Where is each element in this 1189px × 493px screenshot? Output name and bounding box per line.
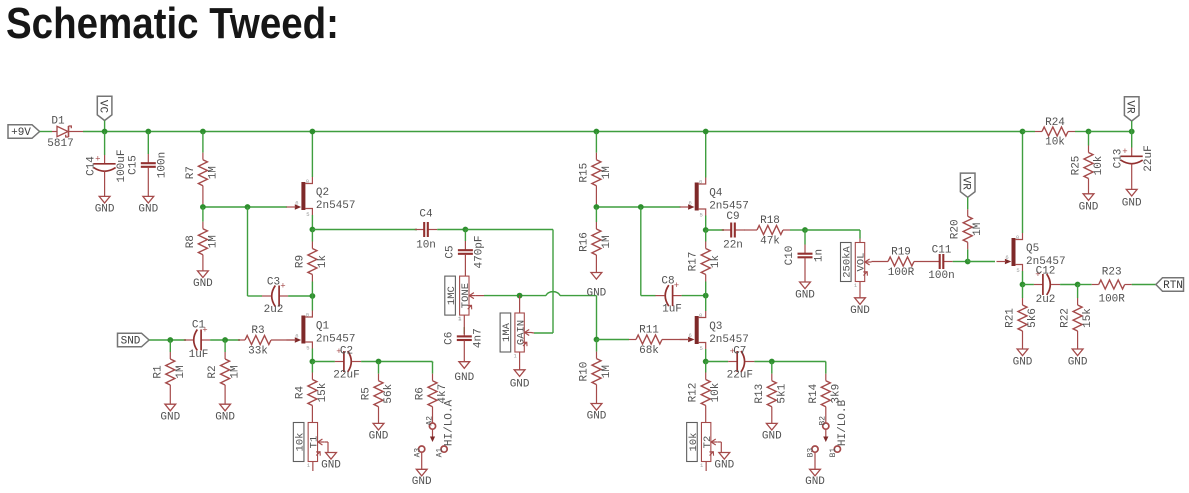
junction: [769, 359, 775, 365]
resistor R12: [688, 362, 723, 423]
wire T2 pin1 stub: [705, 462, 707, 472]
svg-text:0: 0: [1016, 234, 1019, 241]
junction: [167, 337, 173, 343]
svg-text:GND: GND: [587, 411, 607, 423]
wire to Q5 gate: [968, 261, 995, 263]
svg-text:R3: R3: [251, 325, 264, 337]
svg-text:GND: GND: [369, 431, 389, 443]
pad A1: [436, 446, 448, 457]
resistor R6: [415, 362, 450, 424]
junction: [517, 293, 523, 299]
wire GAIN top pin: [519, 296, 521, 313]
capacitor C14: [85, 132, 128, 216]
svg-text:R8: R8: [185, 235, 197, 248]
junction: [310, 293, 316, 299]
junction: [703, 293, 709, 299]
svg-text:100n: 100n: [157, 152, 169, 178]
svg-text:22uF: 22uF: [333, 370, 359, 382]
capacitor C10: [784, 230, 825, 302]
svg-text:GND: GND: [95, 204, 115, 216]
resistor R18: [744, 215, 805, 248]
wire VC stem: [104, 121, 106, 132]
ground: [412, 469, 432, 488]
node HI/LO.A label: [444, 400, 456, 447]
capacitor C7: [706, 346, 826, 382]
resistor R19: [872, 247, 921, 280]
wire Q1 drain: [311, 296, 313, 311]
svg-text:22uF: 22uF: [727, 370, 753, 382]
svg-text:C12: C12: [1036, 266, 1056, 278]
wire C8 drop: [641, 207, 656, 296]
junction: [222, 337, 228, 343]
svg-text:5817: 5817: [47, 138, 73, 150]
resistor R25: [1071, 132, 1106, 214]
pad B2: [819, 416, 829, 429]
capacitor C12: [1023, 266, 1078, 307]
svg-text:Q3: Q3: [709, 321, 722, 333]
junction: [310, 227, 316, 233]
svg-text:R22: R22: [1060, 308, 1072, 328]
svg-text:GND: GND: [1122, 198, 1142, 210]
svg-text:R2: R2: [207, 365, 219, 378]
resistor R21: [1005, 285, 1040, 369]
resistor R10: [579, 340, 614, 423]
svg-text:0: 0: [306, 178, 309, 185]
potentiometer TONE: [445, 276, 476, 323]
svg-text:1M: 1M: [972, 223, 984, 236]
resistor R1: [152, 340, 187, 423]
svg-text:15k: 15k: [317, 382, 329, 402]
svg-text:R20: R20: [950, 219, 962, 239]
transistor Q5: [997, 233, 1066, 274]
svg-text:C4: C4: [419, 209, 433, 221]
wire gate row 2: [596, 206, 680, 208]
svg-text:5k6: 5k6: [1027, 308, 1039, 328]
svg-text:22uF: 22uF: [1143, 145, 1155, 171]
svg-text:Schematic Tweed:: Schematic Tweed:: [6, 0, 339, 48]
svg-text:B2: B2: [819, 416, 828, 426]
svg-text:2n5457: 2n5457: [316, 200, 356, 212]
junction: [1086, 129, 1092, 135]
svg-text:VC: VC: [96, 100, 108, 114]
svg-text:1M: 1M: [230, 365, 242, 378]
svg-text:10k: 10k: [710, 382, 722, 402]
resistor R4: [294, 362, 329, 423]
svg-text:B3: B3: [807, 448, 816, 458]
svg-text:6: 6: [1005, 254, 1008, 261]
svg-text:GND: GND: [850, 305, 870, 317]
svg-text:Q1: Q1: [316, 321, 330, 333]
capacitor C4: [415, 209, 466, 252]
wire C4 row: [312, 229, 417, 231]
svg-text:R25: R25: [1071, 156, 1083, 176]
wire R6 drop: [432, 362, 434, 364]
pad A2: [425, 416, 435, 429]
svg-text:HI/LO.A: HI/LO.A: [444, 400, 456, 447]
wire Q2 source: [311, 215, 313, 230]
wire gate row 1: [203, 206, 287, 208]
capacitor C9: [722, 211, 744, 252]
svg-text:HI/LO.B: HI/LO.B: [837, 400, 849, 447]
svg-text:10k: 10k: [1093, 155, 1105, 175]
wire R14 drop: [825, 362, 827, 364]
node RTN flag: [1156, 278, 1184, 293]
transistor Q2: [286, 177, 355, 218]
svg-text:R16: R16: [578, 232, 590, 252]
svg-text:R15: R15: [578, 163, 590, 183]
ground: [850, 298, 870, 317]
junction: [703, 227, 709, 233]
capacitor C15: [127, 132, 168, 216]
resistor R13: [754, 362, 789, 443]
svg-text:A3: A3: [413, 448, 422, 458]
wire Q5 drain: [1022, 132, 1024, 234]
junction: [594, 129, 600, 135]
junction: [310, 359, 316, 365]
svg-text:R10: R10: [579, 362, 591, 382]
svg-text:Q4: Q4: [709, 188, 723, 200]
resistor R8: [185, 207, 220, 290]
svg-text:GND: GND: [714, 460, 734, 472]
wire SND row: [149, 339, 186, 341]
svg-text:GND: GND: [1013, 357, 1033, 369]
svg-text:4n7: 4n7: [473, 328, 485, 348]
svg-text:1: 1: [307, 462, 311, 469]
svg-text:A2: A2: [425, 416, 434, 426]
svg-text:5: 5: [1016, 267, 1019, 274]
wire 9V rail left: [83, 131, 1022, 133]
wire VOL bottom pin: [859, 282, 861, 298]
node VC flag: [96, 96, 112, 120]
svg-text:R13: R13: [754, 384, 766, 404]
junction: [463, 227, 469, 233]
svg-text:1: 1: [458, 315, 462, 322]
svg-text:5k1: 5k1: [776, 383, 788, 403]
svg-text:56k: 56k: [383, 383, 395, 403]
potentiometer VOL: [841, 243, 872, 290]
svg-text:GND: GND: [762, 431, 782, 443]
svg-text:15k: 15k: [1082, 308, 1094, 328]
svg-text:Q5: Q5: [1026, 243, 1039, 255]
junction: [594, 337, 600, 343]
wire TONE bottom pin: [458, 315, 464, 334]
wire VR2 stem: [1131, 121, 1133, 132]
svg-text:R1: R1: [152, 365, 164, 379]
resistor R20: [950, 209, 985, 262]
wire GAIN wiper: [531, 332, 534, 335]
svg-text:R6: R6: [415, 387, 427, 400]
svg-text:GND: GND: [795, 290, 815, 302]
wire Q1 source: [311, 349, 313, 362]
svg-text:1: 1: [513, 353, 517, 360]
svg-text:R7: R7: [185, 166, 197, 179]
resistor R3: [238, 325, 295, 358]
svg-text:C10: C10: [784, 246, 796, 266]
svg-text:1MC: 1MC: [446, 286, 458, 305]
svg-text:GND: GND: [193, 278, 213, 290]
svg-text:C1: C1: [192, 320, 206, 332]
svg-text:C15: C15: [127, 155, 139, 175]
junction: [1020, 282, 1026, 288]
svg-text:C13: C13: [1113, 149, 1125, 169]
svg-text:A1: A1: [436, 448, 445, 458]
transistor Q3: [680, 311, 749, 352]
wire Q4 drain: [705, 132, 707, 178]
capacitor C6: [443, 327, 484, 384]
svg-text:GND: GND: [138, 204, 158, 216]
svg-text:C7: C7: [733, 346, 746, 358]
svg-text:C11: C11: [932, 245, 952, 257]
svg-text:2n5457: 2n5457: [709, 334, 749, 346]
resistor R5: [361, 362, 396, 443]
svg-text:1M: 1M: [175, 365, 187, 378]
svg-text:+: +: [280, 282, 285, 292]
resistor R11: [597, 325, 689, 358]
resistor R9: [294, 230, 329, 297]
wire GAIN bottom pin: [519, 352, 521, 370]
capacitor C1: [184, 320, 240, 362]
svg-text:1M: 1M: [601, 166, 613, 179]
junction: [102, 129, 108, 135]
wire B3 to gnd: [814, 452, 816, 469]
junction: [703, 359, 709, 365]
svg-text:6: 6: [295, 333, 298, 340]
svg-text:100uF: 100uF: [116, 149, 128, 182]
svg-text:R5: R5: [361, 387, 373, 400]
potentiometer T1: [293, 423, 324, 470]
transistor Q1: [286, 311, 355, 352]
junction: [200, 204, 206, 210]
capacitor C13: [1113, 132, 1156, 210]
resistor R7: [185, 132, 220, 208]
resistor R24: [1022, 117, 1089, 149]
svg-text:5: 5: [306, 345, 309, 352]
node +9V flag: [8, 125, 40, 140]
svg-text:GND: GND: [454, 372, 474, 384]
ground: [510, 370, 530, 391]
pad A3: [413, 446, 425, 457]
svg-text:R19: R19: [891, 247, 911, 259]
svg-text:C5: C5: [444, 245, 456, 258]
jumper arrow A: [430, 429, 435, 442]
wire Q3 source: [705, 349, 707, 362]
svg-text:B1: B1: [829, 448, 838, 458]
svg-text:1M: 1M: [601, 365, 613, 378]
svg-text:GND: GND: [510, 379, 530, 391]
svg-text:5: 5: [700, 345, 703, 352]
wire VOL top pin: [859, 239, 861, 244]
svg-text:1k: 1k: [317, 255, 329, 269]
wire rail to VR: [1089, 131, 1132, 133]
svg-text:68k: 68k: [639, 345, 659, 357]
junction: [638, 204, 644, 210]
diode D1: [47, 116, 83, 151]
junction: [703, 129, 709, 135]
svg-text:100R: 100R: [888, 267, 915, 279]
wire T1 pin1 stub: [312, 462, 314, 472]
svg-text:6: 6: [689, 332, 692, 339]
svg-text:1k: 1k: [710, 255, 722, 269]
svg-text:6: 6: [295, 200, 298, 207]
junction: [310, 129, 316, 135]
transistor Q4: [680, 178, 749, 219]
resistor R14: [808, 362, 843, 424]
svg-text:22n: 22n: [723, 240, 743, 252]
svg-text:1uF: 1uF: [662, 304, 682, 316]
svg-text:100n: 100n: [928, 270, 954, 282]
ground: [714, 453, 734, 472]
wire Q5 source: [1022, 271, 1024, 285]
svg-text:2n5457: 2n5457: [316, 334, 356, 346]
junction: [376, 359, 382, 365]
svg-text:2u2: 2u2: [264, 304, 284, 316]
resistor R16: [578, 207, 613, 300]
svg-text:10k: 10k: [294, 433, 306, 452]
wire C3 drop: [248, 207, 263, 296]
junction: [245, 204, 251, 210]
svg-text:1M: 1M: [207, 235, 219, 248]
svg-text:10k: 10k: [1045, 137, 1065, 149]
pad B1: [829, 446, 841, 457]
svg-text:1M: 1M: [207, 166, 219, 179]
svg-text:RTN: RTN: [1163, 280, 1183, 292]
svg-text:R17: R17: [688, 252, 700, 272]
svg-text:C9: C9: [726, 211, 739, 223]
junction: [1020, 129, 1026, 135]
junction: [1129, 129, 1135, 135]
svg-text:1MA: 1MA: [501, 322, 513, 342]
svg-text:250kA: 250kA: [842, 246, 854, 278]
svg-text:C8: C8: [661, 276, 674, 288]
node HI/LO.B label: [837, 400, 849, 447]
wire Q2 drain: [311, 132, 313, 178]
svg-text:R23: R23: [1102, 267, 1122, 279]
svg-text:100R: 100R: [1098, 294, 1125, 306]
wire TONE wiper row: [476, 292, 597, 340]
svg-text:1uF: 1uF: [189, 349, 209, 361]
node SND flag: [118, 333, 150, 348]
svg-text:1M: 1M: [601, 235, 613, 248]
resistor R2: [207, 340, 242, 423]
svg-text:C2: C2: [340, 346, 353, 358]
wire T1 wiper to gnd: [325, 442, 329, 452]
title: [6, 0, 339, 48]
ground: [321, 453, 341, 472]
junction: [145, 129, 151, 135]
svg-text:GND: GND: [805, 476, 825, 488]
svg-text:GND: GND: [412, 476, 432, 488]
svg-text:VR: VR: [960, 177, 972, 191]
svg-text:GND: GND: [160, 411, 180, 423]
svg-text:R14: R14: [808, 383, 820, 403]
wire C9 row: [706, 229, 724, 231]
wire +9V to D1: [40, 131, 52, 133]
svg-text:C14: C14: [85, 156, 97, 176]
svg-text:R18: R18: [760, 215, 780, 227]
svg-text:10n: 10n: [416, 240, 436, 252]
svg-text:R12: R12: [688, 383, 700, 403]
svg-text:SND: SND: [121, 336, 141, 348]
resistor R15: [578, 132, 613, 208]
svg-text:GND: GND: [586, 288, 606, 300]
capacitor C8: [655, 276, 705, 316]
wire C4 row right: [465, 230, 553, 334]
svg-text:0: 0: [699, 179, 702, 186]
svg-text:6: 6: [689, 200, 692, 207]
svg-text:Q2: Q2: [316, 187, 329, 199]
svg-text:2u2: 2u2: [1036, 294, 1056, 306]
svg-text:GND: GND: [1068, 357, 1088, 369]
svg-text:C6: C6: [443, 332, 455, 345]
resistor R22: [1060, 285, 1095, 369]
junction: [200, 129, 206, 135]
svg-text:0: 0: [306, 312, 309, 319]
capacitor C11: [920, 245, 968, 283]
svg-text:R11: R11: [639, 325, 659, 337]
capacitor C3: [262, 277, 313, 317]
pad B3: [807, 446, 819, 457]
svg-text:0: 0: [699, 312, 702, 319]
svg-text:1: 1: [854, 282, 858, 289]
wire T2 wiper to gnd: [718, 442, 722, 452]
svg-text:D1: D1: [51, 116, 65, 128]
svg-text:GND: GND: [215, 411, 235, 423]
svg-text:R4: R4: [294, 386, 306, 400]
wire VR stem: [967, 197, 969, 209]
wire to VOL top: [805, 230, 860, 239]
svg-text:5: 5: [700, 212, 703, 219]
junction: [965, 259, 971, 265]
svg-text:GND: GND: [1079, 202, 1099, 214]
svg-text:1n: 1n: [813, 249, 825, 262]
svg-text:R21: R21: [1005, 308, 1017, 328]
junction: [594, 204, 600, 210]
potentiometer T2: [687, 423, 718, 470]
wire Q3 drain: [705, 296, 707, 311]
svg-text:470pF: 470pF: [474, 235, 486, 268]
potentiometer GAIN: [500, 313, 531, 360]
capacitor C5: [444, 230, 485, 277]
svg-text:1: 1: [700, 462, 704, 469]
svg-text:R24: R24: [1045, 117, 1065, 129]
svg-text:VR: VR: [1124, 100, 1136, 114]
svg-text:5: 5: [306, 211, 309, 218]
junction: [802, 227, 808, 233]
ground: [805, 469, 825, 488]
wire Q4 source: [705, 216, 707, 231]
svg-text:47k: 47k: [760, 236, 780, 248]
resistor R17: [688, 230, 723, 296]
svg-text:C3: C3: [267, 277, 280, 289]
svg-text:+9V: +9V: [11, 127, 31, 139]
capacitor C2: [312, 346, 432, 382]
svg-text:33k: 33k: [248, 346, 268, 358]
resistor R23: [1078, 267, 1156, 306]
svg-text:10k: 10k: [688, 433, 700, 452]
wire A3 to gnd: [421, 452, 423, 469]
jumper arrow B: [823, 429, 828, 442]
node VR flag: [960, 173, 976, 197]
node VR flag: [1124, 97, 1140, 121]
svg-text:R9: R9: [294, 255, 306, 268]
junction: [1075, 282, 1081, 288]
svg-text:GND: GND: [321, 460, 341, 472]
